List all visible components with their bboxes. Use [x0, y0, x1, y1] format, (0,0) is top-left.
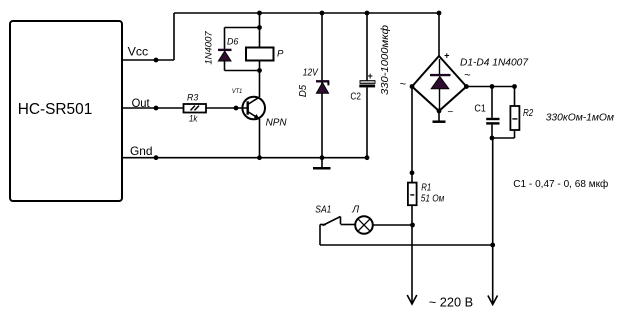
arrow right AC	[488, 296, 498, 305]
wire right AC line down	[492, 138, 494, 304]
node bottom return / right line	[490, 243, 495, 248]
wire bridge left down	[411, 87, 413, 183]
capacitor C2	[350, 13, 390, 158]
lamp Л	[351, 205, 373, 234]
node emitter/gnd	[257, 155, 262, 160]
node rail/C2	[365, 11, 370, 16]
wire R1 down to lamp junction	[411, 205, 413, 225]
wire R3 to base	[206, 107, 248, 109]
svg-text:С1 - 0,47 - 0, 68 мкф: С1 - 0,47 - 0, 68 мкф	[513, 178, 608, 190]
svg-text:D5: D5	[298, 84, 309, 97]
node Out pin	[154, 106, 159, 111]
transistor VT1	[232, 88, 287, 128]
node bridge right	[464, 84, 469, 89]
node rail/D5	[320, 11, 325, 16]
svg-text:R2: R2	[523, 107, 533, 119]
node C2/gnd	[365, 155, 370, 160]
node rail/relay	[257, 11, 262, 16]
svg-text:−: −	[447, 107, 453, 118]
svg-text:Л: Л	[351, 205, 359, 216]
wire Vcc riser	[173, 13, 175, 60]
svg-text:R1: R1	[421, 182, 431, 193]
node bridge left	[410, 84, 415, 89]
resistor R2	[492, 87, 533, 139]
node Gnd pin	[154, 155, 159, 160]
svg-text:D1-D4 1N4007: D1-D4 1N4007	[460, 57, 528, 68]
svg-text:NPN: NPN	[266, 117, 288, 128]
svg-text:~: ~	[400, 79, 407, 91]
relay P	[246, 48, 274, 61]
node relay/D6 top	[257, 25, 262, 30]
svg-text:SA1: SA1	[315, 205, 331, 216]
wire top supply rail	[174, 12, 439, 14]
wire relay to rail	[259, 13, 261, 48]
node C1 top	[490, 84, 495, 89]
wire emitter down to gnd rail	[259, 119, 261, 158]
ground symbol under bridge	[438, 111, 440, 121]
wire bottom return	[320, 244, 493, 246]
svg-text:P: P	[277, 49, 284, 60]
svg-text:1k: 1k	[189, 114, 198, 125]
svg-text:1N4007: 1N4007	[204, 31, 215, 65]
svg-text:+: +	[368, 71, 373, 81]
node R2 top	[512, 84, 517, 89]
svg-text:R3: R3	[187, 92, 199, 103]
HC-SR501 module box	[10, 21, 122, 201]
svg-text:330-1000мкф: 330-1000мкф	[379, 25, 391, 95]
ground symbol at gnd rail	[321, 158, 323, 168]
capacitor C1	[474, 87, 499, 139]
wire Vcc pin to riser	[122, 59, 174, 61]
node lamp junction	[410, 223, 415, 228]
svg-text:Gnd: Gnd	[130, 144, 153, 158]
wire bridge right to C1/R2	[466, 86, 514, 88]
node R1 top	[410, 170, 415, 175]
node bridge bottom	[437, 109, 442, 114]
svg-text:+: +	[444, 51, 450, 61]
svg-text:HC-SR501: HC-SR501	[18, 101, 93, 118]
switch SA1	[315, 205, 355, 245]
resistor R3	[184, 104, 207, 113]
node relay/D6 bottom	[257, 68, 262, 73]
node rail/bridge	[437, 11, 442, 16]
wire Out pin to R3	[122, 107, 184, 109]
zener diode D5	[298, 13, 329, 158]
svg-text:C2: C2	[350, 91, 361, 103]
svg-text:12V: 12V	[303, 67, 319, 78]
svg-text:51 Ом: 51 Ом	[421, 194, 445, 205]
wire collector up to relay	[259, 61, 261, 98]
svg-text:C1: C1	[474, 103, 486, 115]
svg-text:~ 220 В: ~ 220 В	[429, 294, 473, 309]
svg-text:Vcc: Vcc	[128, 44, 149, 58]
wire lamp to left line	[373, 224, 413, 226]
svg-text:~: ~	[464, 70, 471, 82]
arrow left AC	[407, 295, 417, 304]
wire bridge riser	[438, 13, 440, 56]
node base wire	[234, 106, 239, 111]
svg-text:VT1: VT1	[232, 88, 243, 95]
diode D6	[204, 28, 260, 71]
node D5/gnd	[320, 155, 325, 160]
resistor R1	[408, 182, 445, 205]
svg-text:D6: D6	[227, 37, 239, 48]
node Vcc pin	[154, 58, 159, 63]
bridge rectifier D1-D4	[400, 51, 529, 119]
svg-text:330кОм-1мОм: 330кОм-1мОм	[546, 112, 614, 124]
wire left AC line down	[411, 225, 413, 304]
node C1/R2 bottom	[490, 136, 495, 141]
wire Gnd rail	[122, 157, 367, 159]
